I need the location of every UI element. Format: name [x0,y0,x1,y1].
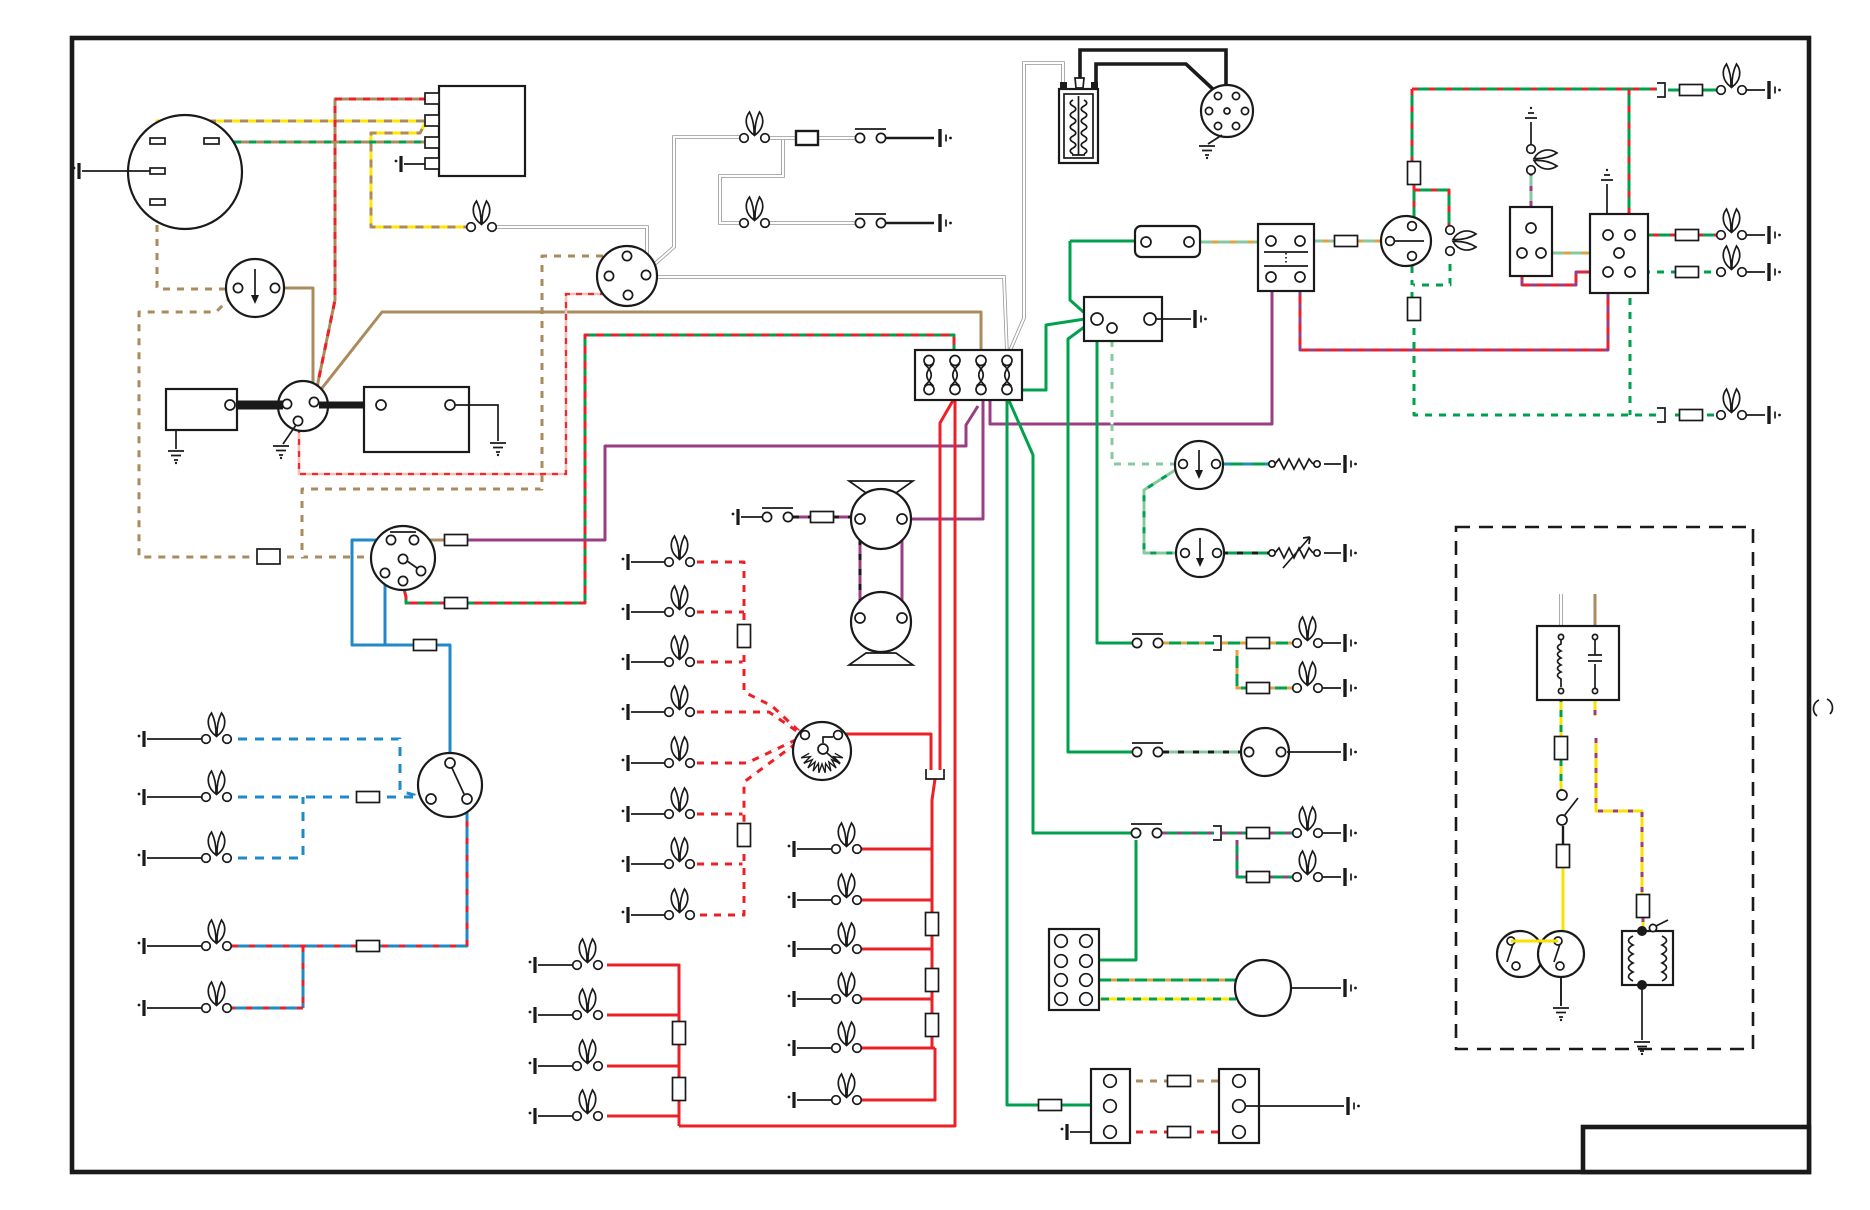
interior lamp L1 [740,112,770,142]
wire red/white panel lamp 2 [690,611,744,614]
wire black LT coil to distributor [1096,64,1216,92]
headlamp dip RH [138,982,232,1016]
wire dynamo earth [82,170,150,172]
title block [1583,1127,1809,1172]
fuse headlamp dip [357,792,380,803]
wire green/blue flasher1 to resistor [1221,463,1270,466]
lighting relay unit [1510,207,1552,276]
wire purple wiper fuse to fuse box [467,406,978,540]
wire brown ignition switch to ammeter [279,288,313,393]
wire white distributor to fuse box [656,277,1007,354]
wire brown/white branch to distributor unit [302,256,621,557]
fuse main beam warning [1408,298,1421,321]
wire green switch to connector block [1093,840,1136,960]
wire red lamp bus vertical [861,779,935,1100]
wire green/purple wiper-washer switch to lamps [1162,832,1293,835]
ground 3way right [1348,1097,1360,1115]
wire green/white switch to side lamp [1636,271,1717,274]
wire black solenoid to earth [1560,977,1562,1006]
resistor flasher1 [1269,459,1320,469]
wire green relay to horn switch [1068,322,1132,752]
busbar left [235,401,283,410]
wire blue fuse to dip switch [437,645,450,759]
wire purple/red flasher relay to switch box [1300,278,1608,350]
wire light-green/green flasher1 to flasher2 [1144,467,1181,553]
wire red/white panel lamp 1 [690,562,744,624]
fuse dip beam [357,941,380,952]
fuse flasher feed [1408,162,1421,185]
connector stop lamps [1213,636,1221,650]
wire brown/red control box tab1 to ammeter [315,99,426,397]
wire green/red to lighting relay [1628,89,1631,230]
wire green fuse box to flasher feed box [1070,241,1142,317]
wire ammeter earth [283,425,296,444]
wire green relay to brake switch [1097,326,1132,643]
wire black interior lamp switch to earth [886,137,934,139]
overdrive solenoid relay [1622,920,1673,990]
wire blue/white LH headlamp main to dip switch [230,739,428,799]
fuse flasher lamp RH top [1657,83,1703,97]
wire white distributor to interior lamp [648,137,741,270]
flasher lamp RH top [1717,64,1781,99]
wire brown/white fuse to lighting switch [280,556,399,559]
wire black HT coil to distributor centre [1080,50,1226,104]
accessory relay [1084,297,1162,341]
wire green top lamp fuse to lamp [1668,89,1717,92]
wire white overdrive feed stub [1559,594,1563,634]
tachometer [1235,960,1291,1016]
wire purple/black wiper switch to motor [793,516,812,519]
fuse overdrive yellow-green [1555,737,1568,760]
fuse lamp row4 [1657,408,1703,422]
fuse lamp row3b [1247,872,1270,883]
horn switch [1132,743,1163,757]
wire brown/yellow dynamo D to control box tab2 [157,121,426,142]
flasher relay unit [1258,224,1314,291]
ground 3way left [1061,1124,1091,1140]
ground ammeter [273,446,289,459]
wire black throttle switch link [1562,826,1564,845]
wire green/yellow connector to tachometer [1093,998,1236,1001]
lamp row3b [1293,851,1357,886]
wire green/red flasher feed top [1412,88,1657,91]
fuse panel circuit [445,598,468,609]
lamp row3a [1293,807,1357,842]
wire green/white lighting switch join [1629,277,1632,415]
headlamp main LH [138,713,232,747]
ground panel warning lamp [1525,107,1537,118]
wire light-green/orange overdrive relay to gearbox switch [1546,252,1613,255]
revision mark glyph right margin [1813,699,1832,716]
wiper switch S5 [732,508,793,525]
fuse panel lamps lower [738,824,751,847]
wire yellow solenoid link [1511,940,1558,943]
fuse 3way red link [1168,1127,1191,1138]
connector bracket stop bus [926,769,944,779]
fuse side lamp row3 [1676,267,1699,278]
wire red tail lamp feeds [861,849,935,1048]
wire relay earth [1156,318,1191,320]
wire yellow switch to solenoid [1562,866,1565,940]
wire purple wiper motor armature right [901,524,904,618]
wire brown/white ignition switch to lighting switch fuse [139,291,257,557]
wire purple fuse box to flasher unit [990,281,1272,424]
wire white branch to map lamp [720,140,856,223]
wire light-green/white relay to flasher unit 1 [1112,333,1179,464]
wire yellow/green overdrive relay to throttle switch [1560,695,1563,790]
ground map lamp [940,214,952,232]
overdrive inset dashed box [1456,527,1753,1049]
fuse stop lamp RH [1247,638,1270,649]
wire control box earth [404,163,425,165]
wire light-green/orange flasher relay to dip switch [1305,240,1386,243]
wire red rheostat to lamp bus [842,734,931,770]
rear lamps left column [529,939,603,973]
fuse overdrive switch [1557,845,1570,868]
ignition coil T1 [1059,78,1098,163]
wire battery earth [455,405,498,441]
flasher feed box [1135,226,1200,257]
fuse interior feed [1039,1100,1062,1111]
lamp row4 [1717,389,1781,424]
wire yellow/purple overdrive relay to solenoid relay [1595,695,1643,928]
wire red/white panel lamp 4 [690,712,801,734]
ground resistor1 [1345,455,1357,473]
wire brown lighting switch to wiper fuse [418,539,446,542]
horn H1 [1241,728,1289,776]
dynamo D1 [128,115,242,229]
wire red number plate lamp feed from fuse [679,397,955,1126]
ground distributor [1199,146,1215,159]
starter solenoid box [166,389,237,430]
ground horn [1345,743,1357,761]
stop lamp RH [1293,617,1357,652]
wire resistor earth [1324,463,1341,465]
wire light-green/black horn switch to horn [1163,751,1243,754]
control box RB106 [425,86,525,176]
fuse box FB1 [915,350,1022,400]
distributor points D2 [597,246,657,306]
panel warning lamp column [1527,122,1557,174]
ignition warning lamp WL1 [467,201,497,231]
fuses stop-tail bus [926,913,939,936]
multi connector block [1049,929,1099,1010]
flasher unit FL2 [1176,529,1224,577]
fuse wiper circuit [445,535,468,546]
wire white warning lamp to distributor [496,227,647,268]
ground resistor2 [1345,544,1357,562]
fuse lamp row3a [1247,828,1270,839]
fuse 3way brown link [1168,1076,1191,1087]
fuse head lamp row2 [1676,230,1699,241]
wire brown/yellow control box to ignition warning lamp [371,122,466,227]
distributor cap D3 [1201,85,1253,137]
overdrive relay box [1537,626,1619,700]
wire light-green/purple lamp to overdrive relay [1530,171,1533,224]
variable resistor flasher2 [1269,537,1320,568]
wire green fuse to flasher 3-way connector [1060,1104,1104,1107]
fuse overdrive solenoid [1637,895,1650,918]
ground overdrive relay [1634,1042,1650,1055]
fuse wiper motor [811,512,834,523]
fuse stop lamp LH [1247,683,1270,694]
wire distributor earth [1208,135,1222,144]
wire brown ammeter to fuse box [315,312,981,397]
ground interior lamp [940,129,952,147]
brake stop switch [1132,634,1163,648]
fuse lighting switch feed [257,549,280,564]
headlamp flasher lamp [138,832,232,866]
switch interior lamp [855,129,886,143]
wire green/white main beam warning feed [1412,257,1450,298]
wire red/white panel lamp 3 and bus to rheostat [690,648,801,733]
stop-tail lamps right column [788,823,862,857]
wiper washer switch [1131,824,1162,838]
flasher unit FL1 [1175,441,1223,489]
connector washer lamps [1213,826,1221,840]
wire blue/red dip switch to dipped beam fuse [380,804,467,946]
wire green/orange connector to tachometer [1093,979,1236,982]
wire green/white fuse to RH main beam lamp [1414,321,1656,415]
wire blue lighting switch lower to dip fuse [385,577,414,645]
wire green/black flasher2 to resistor [1222,552,1270,555]
wiper motor M1 [849,481,913,665]
wire black map lamp switch to earth [886,222,934,224]
headlamp dip LH [138,920,232,954]
wire blue/white RH headlamp main to fuse [230,796,357,799]
wire red stop switch feed from fuse box [940,397,955,770]
ground overdrive switch [1553,977,1569,1021]
wire light-green/orange feed box to flasher relay [1194,241,1266,244]
wire purple wiper motor to fuse box [907,397,983,519]
wire red/white panel lamps 6-8 bus [690,739,802,915]
wire red/white 3way connector link [1115,1131,1234,1134]
3way connector left [1091,1069,1130,1143]
wire green/orange brake switch to stop lamps [1163,642,1293,645]
overdrive manual switch [1557,790,1578,825]
wire blue/white headlamp3 join [230,797,303,858]
panel rheostat switch S4 [793,722,851,780]
wire purple/red relay to switch box [1522,258,1602,285]
wire white coil to fuse box [1009,63,1063,353]
battery B1 [364,387,469,452]
wire green/red fuse to flasher switch [1414,184,1449,226]
ground battery [490,443,506,456]
wire brown/white 3way connector link [1115,1080,1234,1083]
ground relay [1195,310,1207,328]
wire red rear lamp bus left [607,965,679,1126]
stop lamp LH [1293,662,1357,697]
fuses rear lamp bus [673,1022,686,1045]
panel lamps column [622,536,695,570]
ground solenoid [168,451,184,464]
map lamp L2 [740,197,770,227]
wire solenoid earth [175,430,177,449]
wire blue/red fuse to LH dipped headlamp [230,945,357,948]
wire brown/green dynamo F to control box tab3 [219,141,426,144]
wire blue/white fuse to dip switch [379,797,428,799]
wire black solenoid relay to earth [1641,985,1643,1040]
wire blue/red RH dipped headlamp join [230,946,303,1008]
overdrive interlock switches [1497,931,1584,977]
wire red/green lighting switch to fuse box [403,585,446,603]
wire tachometer earth [1291,987,1341,989]
dip switch S3 [418,753,482,817]
direction indicator switch S6 [1381,216,1431,266]
wire horn earth [1287,751,1341,753]
ground light switch [1601,169,1613,180]
3way connector right [1219,1069,1259,1143]
ground dynamo [73,163,79,179]
headlamp main RH [138,771,232,805]
wire resistor2 earth [1324,552,1341,554]
wire red/white ammeter to coil feed [299,294,622,474]
main light switch box [1590,214,1648,293]
wire blue lighting switch to dip fuse [352,540,414,645]
busbar right [319,402,382,409]
resistor interior lamp [796,131,818,145]
ground control box [395,156,401,172]
wire light switch earth [1606,184,1608,214]
wire 3way earth [1245,1105,1344,1107]
wire brown overdrive feed stub [1594,594,1597,634]
fuse flasher switch [1335,236,1358,247]
wire green fuse to interior circuits [1007,395,1041,1105]
fuse panel lamps upper [738,625,751,648]
wire brown/white dynamo to ignition switch [157,204,234,289]
wire purple/black wiper motor armature left [859,524,862,618]
ignition switch S1 [226,259,284,317]
indicator warning lamp [1446,226,1476,256]
lighting switch S2 [371,526,435,590]
side lamp row3 [1717,246,1781,281]
fuse headlamp main [414,640,437,651]
wire green fuse branch to wiper switch feed [1007,396,1131,833]
ground tachometer [1345,979,1357,997]
wire green/red relay to head lamp fuse [1636,234,1717,237]
switch map lamp [855,214,886,228]
wire red/white panel lamp 5 [690,737,802,763]
wire white interior lamp to resistor [770,136,856,140]
head lamp row2 [1717,209,1781,244]
ammeter A1 [278,381,328,431]
wire green fuse box riser to accessory relay [1012,319,1085,390]
